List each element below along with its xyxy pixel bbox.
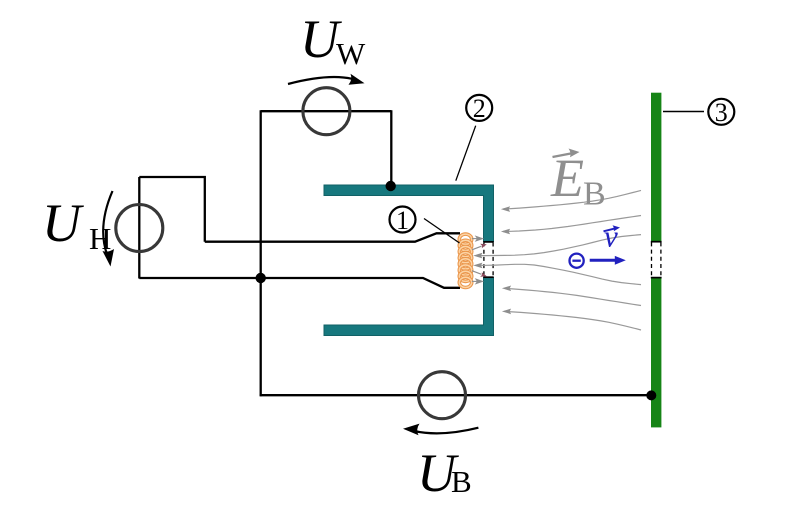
svg-text:1: 1 [396, 206, 409, 235]
svg-text:H: H [89, 221, 111, 256]
Wehnelt cylinder (2) teal body [324, 185, 494, 242]
field line 1 [476, 190, 641, 330]
filament coil (hot cathode, 1) [459, 234, 471, 287]
arrow: U_B polarity (curved, pointing left) [414, 428, 478, 434]
arrow: U_W polarity (curved, pointing right) [288, 77, 352, 84]
small arrows near cathode aperture [472, 236, 483, 283]
svg-text:B: B [583, 176, 606, 213]
arrow: U_H polarity (curved, pointing down) [103, 191, 112, 257]
junction: bottom wire on anode [646, 390, 656, 400]
vector arrow over E [553, 153, 573, 157]
svg-text:3: 3 [715, 98, 728, 127]
wire: filament bottom lead [139, 278, 460, 288]
voltage source U_H [116, 205, 163, 252]
aperture (dashed) in Wehnelt cylinder [483, 242, 493, 277]
field line arrowheads [473, 206, 511, 314]
field line 6 [505, 311, 642, 330]
wire: U_H loop (vertical + top to filament) [139, 177, 205, 279]
wire: left vertical (U_W loop left side down to bottom wire) [260, 110, 262, 396]
wire: top horizontal of U_W loop [261, 110, 392, 112]
junction: U_H bottom wire with left vertical wire [256, 273, 266, 283]
field line 5 [505, 288, 642, 305]
voltage source U_B [419, 372, 466, 419]
voltage source U_W [303, 88, 350, 135]
label circle 2 (Wehnelt cylinder) with pointer [456, 126, 476, 181]
aperture (dashed) in anode plate [651, 242, 662, 278]
field line 3 [476, 235, 641, 256]
svg-text:v: v [604, 219, 618, 254]
label circle 3 (anode) with pointer [663, 111, 704, 113]
field line 4 [476, 264, 641, 284]
svg-text:2: 2 [473, 94, 486, 123]
label circle 1 (cathode) with pointer [424, 219, 460, 244]
wire: right vertical from U_W loop down to Wehnelt cylinder [390, 110, 392, 187]
electron symbol [570, 254, 584, 268]
wire: bottom horizontal (U_B loop) [260, 394, 652, 396]
wire: filament top lead [205, 233, 460, 241]
anode plate (3) green [651, 93, 661, 242]
svg-text:W: W [336, 36, 366, 71]
svg-text:B: B [451, 464, 472, 499]
field line 2 [503, 216, 641, 232]
velocity arrow v [590, 259, 616, 262]
svg-text:U: U [42, 193, 84, 253]
junction: U_W wire on cylinder [386, 181, 396, 191]
